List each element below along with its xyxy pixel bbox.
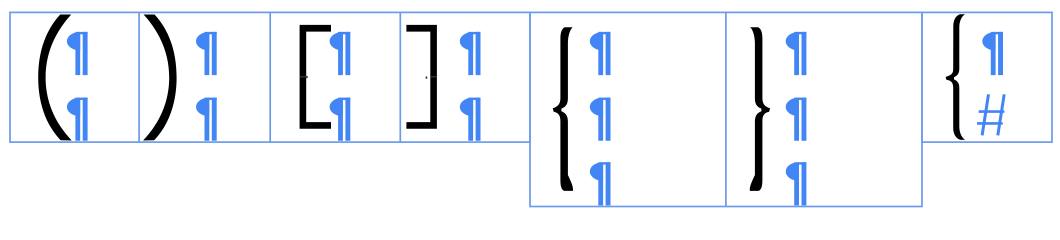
table B separator between brace cells <box>725 12 727 206</box>
pilcrow cell 4 line 1 <box>460 32 481 75</box>
table C border frame (last cell) <box>922 12 1052 142</box>
left bracket mid joint nub <box>306 76 307 78</box>
right bracket mid joint line <box>431 76 437 77</box>
left bracket mid joint line <box>300 76 306 77</box>
table A border frame (cells 1-4) <box>10 12 530 142</box>
big right curly brace } in cell 6 <box>750 27 770 191</box>
pilcrow cell 5 line 2 <box>590 98 611 141</box>
number sign # in cell 7 line 2 <box>977 94 1004 135</box>
big left curly brace { in cell 5 <box>553 27 573 191</box>
pilcrow cell 6 line 2 <box>786 98 807 141</box>
table A separator between cell 3 and 4 <box>399 12 401 142</box>
pilcrow cell 1 line 1 <box>67 32 88 75</box>
big right parenthesis ) in cell 2 <box>143 15 177 141</box>
pilcrow cell 5 line 1 <box>590 32 611 75</box>
pilcrow cell 7 line 1 <box>982 32 1003 75</box>
pilcrow cell 6 line 1 <box>786 32 807 75</box>
pilcrow cell 2 line 2 <box>196 98 217 141</box>
big right square bracket ] in cell 4 <box>406 25 437 129</box>
big left parenthesis ( in cell 1 <box>38 15 71 141</box>
small left curly brace { in cell 7 <box>946 14 966 140</box>
pilcrow cell 5 line 3 <box>590 162 611 205</box>
pilcrow cell 3 line 2 <box>330 98 351 141</box>
pilcrow cell 4 line 2 <box>460 98 481 141</box>
big left square bracket [ in cell 3 <box>300 25 331 129</box>
pilcrow cell 1 line 2 <box>67 98 88 141</box>
table B border frame (brace cells) <box>530 12 922 206</box>
pilcrow cell 3 line 1 <box>330 32 351 75</box>
pilcrow cell 6 line 3 <box>786 162 807 205</box>
right bracket mid joint nub <box>426 76 428 78</box>
pilcrow cell 2 line 1 <box>196 32 217 75</box>
table A separator between cell 1 and 2 <box>138 12 140 142</box>
table A separator between cell 2 and 3 <box>269 12 271 142</box>
